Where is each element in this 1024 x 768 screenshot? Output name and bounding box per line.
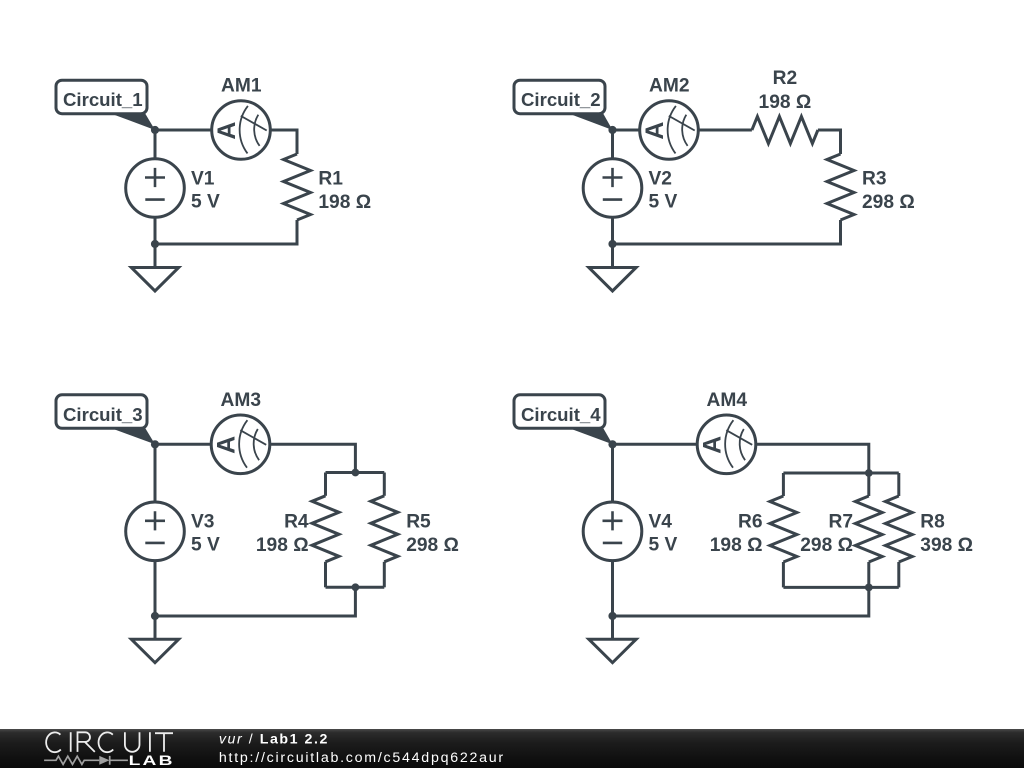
svg-text:R4: R4 (284, 511, 309, 532)
voltage source V3 (126, 502, 220, 561)
svg-text:R5: R5 (406, 511, 431, 532)
node Circuit_3 junction (151, 440, 159, 448)
wire R1 bottom to ground rail (155, 220, 297, 244)
wire V4 bottom to ground node (611, 561, 614, 616)
svg-text:R1: R1 (318, 168, 343, 189)
ground circuit 2 (589, 244, 636, 291)
svg-text:A: A (213, 122, 241, 140)
ammeter AM4 (697, 390, 756, 474)
svg-text:298 Ω: 298 Ω (800, 535, 853, 556)
svg-text:5 V: 5 V (191, 535, 220, 556)
named node label Circuit_4 (514, 395, 613, 445)
label R4 value (256, 511, 309, 556)
svg-text:A: A (699, 436, 727, 454)
svg-text:AM4: AM4 (707, 390, 748, 411)
resistor R5 (371, 496, 398, 562)
wire node Circuit_1 to ammeter AM1 (155, 129, 212, 132)
named node label Circuit_2 (514, 80, 613, 130)
label R5 value (406, 511, 459, 556)
svg-text:Circuit_1: Circuit_1 (63, 89, 143, 110)
wire R5 top stub (383, 473, 386, 496)
resistor R2 (752, 117, 818, 144)
wire V2 bottom to ground node (611, 217, 614, 244)
svg-text:Circuit_4: Circuit_4 (521, 404, 601, 425)
wire node Circuit_4 to ammeter AM4 (613, 443, 698, 446)
svg-text:AM1: AM1 (221, 76, 262, 97)
node Circuit_2 junction (608, 126, 616, 134)
resistor R7 (855, 496, 882, 562)
resistor R1 (284, 154, 311, 220)
wire bottom rail R4-R5 (326, 586, 385, 589)
CircuitLab logo letter C1 (46, 732, 61, 752)
wire node Circuit_2 to ammeter AM2 (613, 129, 641, 132)
ground circuit 3 (131, 616, 178, 663)
wire AM1 to R1 top (270, 130, 297, 154)
wire V3 bottom to ground node (154, 561, 157, 616)
wire R3 bottom to V2 node (613, 220, 841, 244)
named node label Circuit_3 (56, 395, 155, 445)
svg-text:298 Ω: 298 Ω (862, 192, 915, 213)
svg-text:LAB: LAB (129, 753, 175, 768)
ammeter AM1 (212, 76, 271, 160)
junction V2 negative node (608, 240, 616, 248)
svg-text:398 Ω: 398 Ω (920, 535, 973, 556)
junction bottom rail circuit 3 (352, 583, 360, 591)
wire bottom rail R6-R8 (783, 586, 898, 589)
CircuitLab logo letter I2 (149, 732, 151, 752)
wire node to V3 top (154, 444, 157, 502)
junction V3 negative node (151, 612, 159, 620)
wire top rail R4-R5 (326, 471, 385, 474)
wire node to V2 top (611, 130, 614, 159)
junction top rail circuit 3 (352, 469, 360, 477)
label R6 value (710, 511, 763, 556)
svg-text:5 V: 5 V (649, 535, 678, 556)
svg-text:198 Ω: 198 Ω (318, 192, 371, 213)
named node label Circuit_1 (56, 80, 155, 130)
svg-text:198 Ω: 198 Ω (256, 535, 309, 556)
label R1 value (318, 168, 371, 213)
svg-text:R7: R7 (828, 511, 853, 532)
voltage source V4 (583, 502, 677, 561)
label R7 value (800, 511, 853, 556)
CircuitLab logo letter I1 (70, 732, 72, 752)
svg-text:R8: R8 (920, 511, 945, 532)
label R3 value (862, 168, 915, 213)
wire R7 top stub (867, 473, 870, 496)
junction bottom rail circuit 4 (865, 584, 873, 592)
svg-text:V3: V3 (191, 512, 214, 533)
wire R4 bottom stub (324, 562, 327, 588)
svg-text:R6: R6 (738, 511, 763, 532)
svg-text:AM3: AM3 (221, 390, 262, 411)
wire R4 top stub (324, 473, 327, 496)
resistor R4 (312, 496, 339, 562)
junction V1 negative node (151, 240, 159, 248)
svg-text:5 V: 5 V (649, 191, 678, 212)
svg-text:vur / Lab1 2.2: vur / Lab1 2.2 (219, 731, 329, 747)
svg-text:AM2: AM2 (649, 76, 690, 97)
node Circuit_4 junction (608, 440, 616, 448)
junction V4 negative node (608, 612, 616, 620)
wire parallel bottom to V4 node (613, 587, 869, 616)
wire R5 bottom stub (383, 562, 386, 588)
wire R2 to R3 top (818, 130, 841, 154)
resistor R3 (827, 154, 854, 220)
label R2 value (759, 68, 812, 113)
svg-text:R3: R3 (862, 168, 887, 189)
wire AM2 to R2 (698, 129, 752, 132)
svg-text:Circuit_3: Circuit_3 (63, 404, 143, 425)
CircuitLab logo letter C2 (99, 732, 114, 752)
wire R7 bottom stub (867, 562, 870, 587)
wire AM4 to parallel top rail (756, 444, 869, 473)
svg-text:A: A (641, 122, 669, 140)
svg-text:V4: V4 (649, 512, 673, 533)
CircuitLab logo letter R (78, 732, 95, 752)
CircuitLab logo letter U (125, 732, 140, 752)
wire R6 top stub (782, 473, 785, 496)
CircuitLab logo letter T (155, 733, 173, 752)
svg-text:R2: R2 (773, 68, 798, 89)
svg-text:V2: V2 (649, 168, 672, 189)
svg-text:198 Ω: 198 Ω (710, 535, 763, 556)
voltage source V1 (126, 159, 220, 218)
svg-text:298 Ω: 298 Ω (406, 535, 459, 556)
resistor R8 (885, 496, 912, 562)
wire R8 bottom stub (897, 562, 900, 587)
wire parallel bottom to V3 node (155, 587, 355, 616)
label R8 value (920, 511, 973, 556)
ammeter AM2 (640, 76, 699, 160)
CircuitLab logo resistor squiggle and diode (44, 756, 128, 765)
svg-text:198 Ω: 198 Ω (759, 92, 812, 113)
wire node to V1 top (154, 130, 157, 159)
wire top rail R6-R8 (783, 472, 898, 475)
ground circuit 1 (131, 244, 178, 291)
svg-text:A: A (213, 436, 241, 454)
wire AM3 to parallel top rail (270, 444, 356, 472)
svg-text:Circuit_2: Circuit_2 (521, 89, 601, 110)
ground circuit 4 (589, 616, 636, 663)
wire R6 bottom stub (782, 562, 785, 587)
junction top rail circuit 4 (865, 469, 873, 477)
wire R8 top stub (897, 473, 900, 496)
voltage source V2 (583, 159, 677, 218)
svg-text:5 V: 5 V (191, 191, 220, 212)
svg-text:http://circuitlab.com/c544dpq6: http://circuitlab.com/c544dpq622aur (219, 750, 505, 766)
svg-text:V1: V1 (191, 168, 215, 189)
ammeter AM3 (211, 390, 270, 474)
wire V1 bottom to ground node (154, 217, 157, 244)
wire node Circuit_3 to ammeter AM3 (155, 443, 212, 446)
resistor R6 (770, 496, 797, 562)
node Circuit_1 junction (151, 126, 159, 134)
wire node to V4 top (611, 444, 614, 502)
footer bar (0, 729, 1024, 768)
